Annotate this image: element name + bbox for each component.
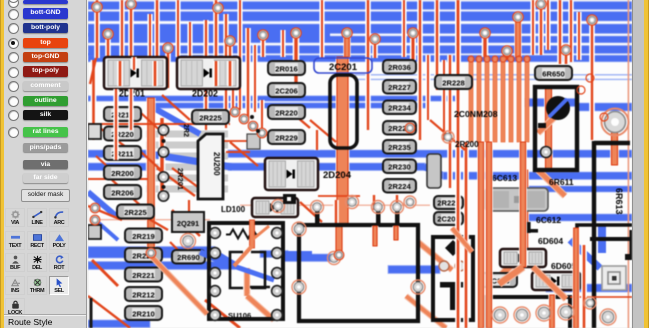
wire [234, 220, 269, 266]
wire [128, 89, 133, 130]
pad [272, 286, 283, 297]
svg-text:6D604: 6D604 [538, 236, 563, 246]
wire [146, 154, 232, 168]
resistor 2R224 [383, 179, 416, 193]
wire [88, 150, 146, 158]
via [213, 3, 223, 13]
wire [88, 24, 632, 34]
svg-text:2R221: 2R221 [132, 271, 155, 280]
via [92, 2, 102, 12]
pad [372, 201, 385, 214]
resistor small [247, 134, 260, 149]
wire [355, 79, 632, 81]
pad [492, 307, 508, 323]
wire [318, 195, 360, 197]
resistor 6R650 [535, 66, 572, 80]
wire [186, 200, 191, 212]
component outline [299, 225, 418, 321]
resistor 6C613 [485, 188, 548, 211]
diode 2D204 [265, 158, 318, 190]
via [342, 28, 352, 38]
resistor 2R690 [172, 250, 205, 264]
svg-text:2Q291: 2Q291 [177, 219, 199, 228]
wire [355, 74, 632, 76]
svg-text:2R201: 2R201 [176, 168, 185, 190]
wire [92, 260, 118, 286]
wire [172, 210, 200, 236]
wire [88, 296, 130, 328]
wire [628, 0, 630, 328]
wire [406, 296, 446, 328]
via [502, 46, 512, 56]
wire [372, 39, 378, 58]
wire [455, 0, 461, 100]
diode 6D605 [532, 272, 580, 290]
via [370, 34, 380, 44]
pad [292, 280, 306, 294]
wire [88, 123, 230, 125]
svg-text:2R225: 2R225 [124, 208, 147, 217]
svg-text:2R225: 2R225 [199, 113, 222, 122]
wire [88, 192, 116, 216]
via [90, 215, 100, 225]
via [90, 203, 100, 213]
svg-text:2C206: 2C206 [275, 86, 297, 95]
svg-text:2R227: 2R227 [388, 83, 410, 92]
pad [536, 305, 552, 321]
wire [88, 206, 122, 220]
svg-text:2R228: 2R228 [442, 78, 464, 87]
via [513, 12, 523, 22]
svg-text:2C0NM208: 2C0NM208 [454, 109, 498, 119]
wire [525, 214, 632, 221]
component outline [577, 225, 632, 250]
wire [430, 120, 465, 150]
wire [96, 156, 120, 178]
wire [88, 247, 215, 259]
wire [237, 0, 242, 110]
wire [576, 12, 581, 60]
wire [228, 150, 632, 158]
pad [328, 252, 341, 265]
via [577, 86, 585, 94]
wire [245, 28, 251, 118]
wire [343, 34, 350, 57]
via [256, 129, 260, 133]
pad [272, 268, 283, 279]
diode LD100 [252, 198, 298, 217]
wire [568, 0, 573, 62]
wire [371, 195, 377, 210]
wire [538, 170, 565, 196]
via [334, 250, 344, 260]
wire [538, 110, 562, 133]
wire [533, 267, 566, 299]
wire [141, 113, 166, 136]
pin [315, 210, 320, 226]
wire [557, 0, 563, 64]
wire [418, 242, 452, 270]
wire [447, 55, 453, 188]
wire [146, 98, 155, 252]
wire [319, 0, 324, 58]
pad [346, 196, 359, 209]
left tool panel [4, 0, 88, 328]
wire [165, 48, 171, 88]
wire [259, 100, 264, 132]
pad [181, 234, 196, 249]
wire [187, 22, 192, 57]
via [405, 123, 415, 133]
pad [292, 222, 306, 236]
wire [170, 242, 190, 262]
resistor tall [427, 154, 441, 188]
pad [158, 147, 168, 157]
svg-text:2R200: 2R200 [455, 140, 479, 149]
wire [113, 89, 118, 160]
via [536, 0, 546, 9]
wire [162, 95, 190, 120]
wire [530, 0, 535, 55]
resistor 2R221 [125, 268, 162, 282]
wire [244, 268, 251, 296]
resistor 2R210 [125, 306, 162, 320]
svg-text:6C612: 6C612 [536, 215, 561, 225]
wire [314, 130, 319, 150]
IC SU106 [209, 223, 283, 319]
pad [272, 200, 285, 213]
pad [442, 131, 454, 143]
capacitor 6C6 [520, 222, 538, 233]
wire [610, 132, 619, 165]
pad [162, 185, 166, 189]
pad [391, 201, 404, 214]
resistor 2R225b [192, 110, 229, 124]
wire [578, 103, 632, 111]
resistor 2R016 [268, 61, 305, 75]
wire [230, 142, 258, 166]
via [258, 30, 268, 40]
resistor 2R223 [125, 248, 162, 262]
wire [482, 33, 489, 57]
pad [602, 109, 629, 136]
left window border [0, 0, 5, 328]
wire [88, 55, 632, 62]
svg-text:2R036: 2R036 [388, 63, 410, 72]
wire [401, 0, 406, 57]
wire [504, 51, 510, 60]
svg-text:6R613: 6R613 [614, 188, 624, 215]
via [225, 36, 235, 46]
resistor 2R220 [383, 121, 416, 135]
wire [424, 167, 444, 177]
svg-text:2R210: 2R210 [132, 309, 154, 318]
wire [88, 53, 180, 56]
wire [533, 267, 566, 299]
wire [159, 118, 166, 200]
wire [417, 0, 423, 140]
wire [88, 2, 632, 10]
svg-text:6R611: 6R611 [549, 177, 574, 187]
wire [94, 0, 100, 58]
resistor 2R225 [117, 205, 154, 219]
component outline [594, 141, 630, 328]
pad [210, 310, 221, 321]
wire [223, 14, 228, 128]
wire [452, 228, 472, 252]
wire [570, 240, 600, 268]
resistor 2R234 [383, 101, 416, 115]
wire [105, 38, 111, 88]
wire [117, 61, 123, 86]
resistor 2R230 [383, 160, 416, 174]
wire [477, 142, 485, 328]
svg-text:LD100: LD100 [221, 205, 246, 214]
wire [544, 87, 553, 170]
capacitor 2C201 [314, 58, 372, 148]
wire [230, 60, 235, 112]
svg-text:2R219: 2R219 [132, 232, 154, 241]
resistor 2R227 [383, 80, 416, 94]
wire [388, 266, 440, 274]
via [586, 74, 594, 82]
pad [162, 139, 166, 143]
pad [311, 201, 324, 214]
svg-text:2D202: 2D202 [192, 89, 218, 99]
pad [411, 280, 425, 294]
wire [88, 12, 632, 22]
wire [425, 55, 430, 120]
resistor 2R213 [104, 107, 141, 121]
via [250, 115, 254, 119]
pad [602, 266, 626, 290]
pad [158, 172, 168, 182]
resistor 2R220 [268, 105, 305, 119]
resistor 2C206 [268, 83, 305, 97]
wire [485, 142, 493, 328]
svg-text:2R212: 2R212 [132, 290, 154, 299]
gray traces region [146, 131, 228, 193]
via [408, 28, 418, 38]
svg-text:SU106: SU106 [228, 311, 251, 320]
wire [112, 180, 140, 205]
svg-text:6R650: 6R650 [542, 69, 564, 78]
wire [200, 251, 312, 280]
diode 2D202 [177, 57, 240, 89]
wire [152, 61, 158, 86]
wire [441, 60, 446, 140]
wire [394, 195, 400, 207]
via [146, 248, 156, 258]
svg-text:2R690: 2R690 [177, 253, 199, 262]
wire [335, 225, 344, 252]
transistor 2Q201 [172, 212, 204, 232]
wire [410, 34, 416, 60]
wire [205, 300, 240, 328]
wire [333, 200, 339, 225]
via [587, 15, 597, 25]
via [248, 121, 258, 131]
wire [157, 168, 195, 196]
wire [293, 33, 300, 85]
wire [90, 298, 93, 328]
wire [228, 163, 425, 171]
wire [130, 208, 168, 230]
wire [151, 256, 207, 314]
resistor 2R219 [125, 229, 162, 243]
via [103, 29, 113, 39]
svg-text:2R2: 2R2 [182, 124, 189, 137]
wire [147, 14, 152, 57]
wire [88, 96, 460, 101]
transistor 6Q6 [535, 87, 577, 170]
via [480, 28, 490, 38]
resistor 2R220 [104, 127, 141, 141]
resistor 2R229 [268, 130, 305, 144]
via [126, 0, 136, 9]
wire [88, 320, 150, 328]
wire [213, 0, 219, 88]
wire [463, 230, 469, 328]
wire [548, 295, 555, 328]
pad [272, 310, 283, 321]
wire [280, 30, 285, 57]
wire [91, 60, 97, 140]
pin [395, 210, 400, 226]
wire [581, 245, 587, 328]
wire [300, 202, 322, 222]
wire [213, 61, 219, 86]
wire [545, 0, 550, 50]
right window border [644, 0, 649, 328]
wire [247, 296, 274, 320]
wire [336, 57, 350, 225]
svg-text:2U200: 2U200 [212, 152, 221, 176]
pad [272, 248, 283, 259]
pad [558, 304, 574, 320]
wire [227, 41, 233, 88]
wire [434, 0, 440, 90]
wire [131, 57, 136, 70]
wire [538, 4, 544, 55]
wire [514, 18, 521, 57]
wire [200, 140, 260, 142]
pad [514, 307, 530, 323]
pad [600, 309, 616, 325]
wire [455, 100, 461, 328]
resistor 2R2 [88, 225, 101, 239]
wire [141, 152, 162, 171]
diode 2D201 [104, 57, 167, 89]
right scrollbar strip [632, 0, 644, 328]
wire [520, 186, 632, 192]
wire [88, 36, 632, 43]
wire [154, 0, 160, 88]
wire [240, 205, 430, 206]
wire [119, 0, 124, 88]
wire [152, 107, 200, 134]
via [163, 43, 173, 53]
svg-text:2R206: 2R206 [111, 188, 133, 197]
pad [283, 194, 296, 204]
diode 6D604 [500, 249, 546, 267]
svg-text:2R229: 2R229 [275, 133, 297, 142]
svg-text:2R234: 2R234 [388, 103, 411, 112]
pad [272, 228, 283, 239]
pad [210, 286, 221, 297]
wire [519, 142, 527, 267]
resistor 6C610 [480, 273, 517, 287]
pad [210, 248, 221, 259]
wire [175, 0, 180, 57]
wire [499, 267, 523, 284]
resistor 2R036 [383, 60, 416, 74]
resistor 2R235 [383, 140, 416, 154]
wire [172, 168, 206, 193]
wire [497, 250, 525, 280]
svg-text:2R220: 2R220 [275, 108, 297, 117]
wire [93, 218, 118, 240]
resistor 2R206 [104, 185, 141, 199]
resistor 2R200 [104, 166, 141, 180]
resistor 2R2b [88, 124, 101, 139]
wire [525, 99, 578, 107]
svg-text:2R016: 2R016 [275, 64, 297, 73]
wire [572, 228, 579, 328]
via [257, 128, 267, 138]
wire [128, 4, 134, 88]
wire [100, 128, 130, 150]
wire [203, 20, 208, 130]
wire [90, 58, 96, 84]
pad [210, 268, 221, 279]
pin [625, 230, 643, 260]
component 2N222 [433, 237, 473, 320]
pad [584, 297, 596, 309]
wire [546, 284, 632, 292]
pad [404, 196, 416, 208]
via [230, 107, 240, 117]
wire [227, 61, 233, 86]
wire [213, 252, 236, 266]
svg-text:2R200: 2R200 [111, 169, 133, 178]
wire [260, 35, 265, 57]
resistor 2R211 [104, 146, 141, 160]
resistor 2C202 [434, 212, 463, 225]
wire [463, 142, 469, 230]
wire [365, 0, 371, 130]
wire [563, 50, 569, 64]
svg-text:2R224: 2R224 [388, 182, 411, 191]
wire [589, 20, 595, 140]
wire [372, 226, 379, 246]
resistor 2R228 [435, 75, 472, 89]
wire [443, 172, 632, 180]
wire [88, 33, 330, 37]
wire [88, 262, 235, 270]
component outline [485, 297, 570, 328]
svg-text:2R235: 2R235 [388, 143, 411, 152]
wire [252, 45, 257, 112]
wire [284, 254, 334, 262]
pad [158, 125, 168, 135]
wire [260, 251, 288, 258]
wire [521, 170, 529, 250]
wire bus cluster [468, 56, 530, 142]
wire [226, 151, 250, 153]
wire [88, 46, 632, 54]
wire [150, 103, 430, 108]
